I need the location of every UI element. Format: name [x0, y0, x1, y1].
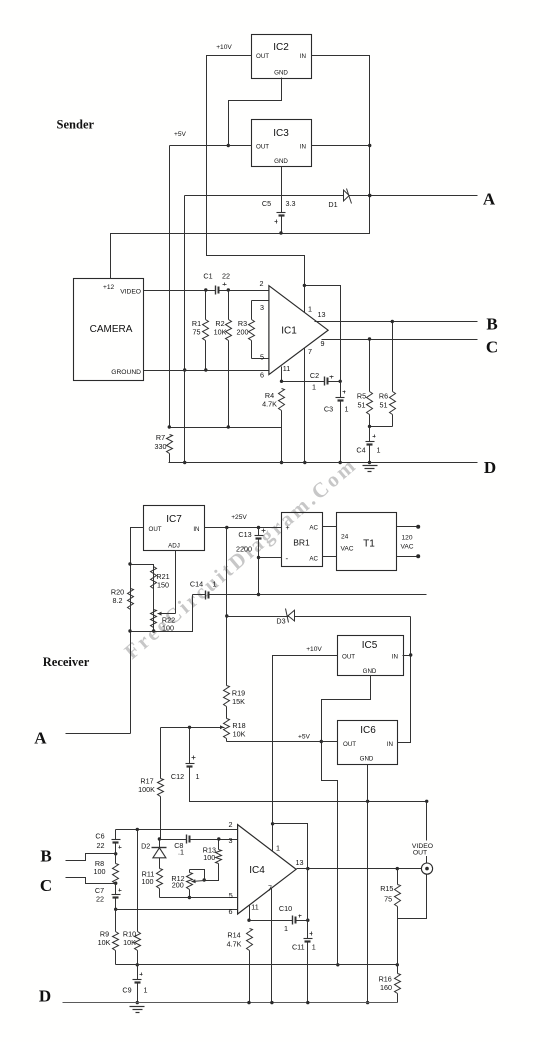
svg-text:IC7: IC7: [166, 514, 182, 525]
svg-text:AC: AC: [309, 556, 318, 563]
svg-text:C12: C12: [171, 772, 184, 781]
svg-text:C13: C13: [238, 530, 251, 539]
svg-text:D: D: [39, 987, 51, 1006]
svg-text:BR1: BR1: [293, 538, 310, 548]
svg-text:+25V: +25V: [231, 514, 247, 521]
svg-text:.1: .1: [178, 848, 184, 857]
svg-text:+10V: +10V: [306, 646, 322, 653]
svg-text:IN: IN: [193, 526, 199, 533]
svg-text:+10V: +10V: [216, 44, 232, 51]
svg-text:2200: 2200: [236, 545, 252, 554]
svg-text:1: 1: [308, 305, 312, 314]
svg-text:GND: GND: [363, 668, 377, 675]
svg-text:Sender: Sender: [57, 117, 95, 131]
svg-text:15K: 15K: [232, 697, 245, 706]
svg-text:R5: R5: [357, 392, 366, 401]
svg-text:D3: D3: [276, 617, 285, 626]
svg-text:IN: IN: [387, 741, 393, 748]
svg-text:+: +: [286, 525, 290, 532]
svg-text:C1: C1: [203, 272, 212, 281]
svg-text:OUT: OUT: [413, 850, 427, 857]
svg-text:D1: D1: [328, 200, 337, 209]
svg-text:OUT: OUT: [149, 526, 162, 533]
svg-text:7: 7: [308, 347, 312, 356]
svg-text:100: 100: [203, 853, 215, 862]
svg-text:2: 2: [260, 279, 264, 288]
svg-text:13: 13: [318, 310, 326, 319]
svg-text:100: 100: [142, 877, 154, 886]
svg-text:1: 1: [284, 924, 288, 933]
svg-text:D: D: [484, 458, 496, 477]
svg-text:13: 13: [296, 858, 304, 867]
svg-text:6: 6: [229, 907, 233, 916]
svg-text:1: 1: [377, 446, 381, 455]
svg-text:R6: R6: [379, 392, 388, 401]
svg-text:C4: C4: [356, 446, 365, 455]
svg-text:2: 2: [229, 820, 233, 829]
svg-text:51: 51: [380, 401, 388, 410]
svg-text:4.7K: 4.7K: [227, 940, 242, 949]
svg-text:IC3: IC3: [273, 128, 289, 139]
svg-text:OUT: OUT: [342, 654, 355, 661]
svg-text:75: 75: [384, 895, 392, 904]
svg-text:GND: GND: [360, 756, 374, 763]
svg-text:C3: C3: [324, 405, 333, 414]
svg-text:T1: T1: [363, 539, 375, 550]
svg-text:6: 6: [260, 371, 264, 380]
svg-text:IN: IN: [300, 144, 306, 151]
svg-text:3: 3: [260, 303, 264, 312]
svg-text:9: 9: [321, 339, 325, 348]
svg-text:C: C: [40, 876, 52, 895]
svg-text:11: 11: [283, 364, 290, 373]
svg-text:VIDEO: VIDEO: [120, 289, 141, 296]
svg-text:IC1: IC1: [281, 326, 297, 337]
svg-text:A: A: [483, 190, 496, 209]
svg-text:11: 11: [251, 903, 258, 912]
svg-text:OUT: OUT: [256, 144, 269, 151]
svg-text:C14: C14: [190, 580, 203, 589]
svg-text:3.3: 3.3: [286, 199, 296, 208]
svg-text:4.7K: 4.7K: [262, 400, 277, 409]
svg-text:VAC: VAC: [341, 546, 354, 553]
svg-text:24: 24: [341, 534, 349, 541]
svg-text:75: 75: [193, 328, 201, 337]
svg-text:7: 7: [268, 884, 272, 893]
svg-text:+12: +12: [103, 284, 115, 291]
svg-text:22: 22: [97, 841, 105, 850]
svg-text:OUT: OUT: [256, 53, 269, 60]
svg-text:IC2: IC2: [273, 42, 289, 53]
svg-text:Receiver: Receiver: [43, 655, 90, 669]
svg-text:IN: IN: [300, 53, 306, 60]
svg-text:C9: C9: [122, 986, 131, 995]
svg-text:GND: GND: [274, 70, 288, 77]
svg-text:VAC: VAC: [400, 544, 413, 551]
svg-text:C11: C11: [292, 943, 305, 952]
svg-text:10K: 10K: [233, 730, 246, 739]
svg-text:R15: R15: [380, 884, 393, 893]
svg-text:CAMERA: CAMERA: [90, 324, 133, 335]
svg-text:1: 1: [312, 943, 316, 952]
svg-text:1: 1: [144, 986, 148, 995]
svg-text:C5: C5: [262, 199, 271, 208]
svg-text:200: 200: [237, 328, 249, 337]
svg-text:1: 1: [213, 580, 217, 589]
svg-text:C10: C10: [279, 904, 292, 913]
svg-text:100K: 100K: [138, 785, 155, 794]
svg-text:R14: R14: [227, 931, 240, 940]
svg-text:C: C: [486, 338, 498, 357]
svg-text:160: 160: [380, 983, 392, 992]
svg-text:B: B: [486, 315, 497, 334]
svg-text:1: 1: [312, 383, 316, 392]
svg-text:IC5: IC5: [362, 640, 378, 651]
svg-text:1: 1: [196, 772, 200, 781]
svg-text:C2: C2: [310, 371, 319, 380]
svg-text:1: 1: [276, 844, 280, 853]
svg-text:150: 150: [157, 581, 169, 590]
svg-text:120: 120: [401, 535, 412, 542]
svg-text:GROUND: GROUND: [111, 369, 141, 376]
svg-text:8.2: 8.2: [113, 596, 123, 605]
svg-text:D2: D2: [141, 842, 150, 851]
svg-text:+5V: +5V: [174, 131, 187, 138]
svg-text:FreeCircuitDiagram.Com: FreeCircuitDiagram.Com: [120, 452, 362, 664]
svg-text:5: 5: [260, 353, 264, 362]
svg-text:ADJ: ADJ: [168, 543, 180, 550]
svg-text:22: 22: [222, 272, 230, 281]
svg-text:3: 3: [229, 836, 233, 845]
svg-text:5: 5: [229, 891, 233, 900]
svg-text:10K: 10K: [98, 938, 111, 947]
svg-text:OUT: OUT: [343, 741, 356, 748]
svg-text:IN: IN: [392, 654, 398, 661]
svg-text:-: -: [286, 554, 289, 563]
svg-text:1: 1: [345, 405, 349, 414]
svg-text:AC: AC: [309, 525, 318, 532]
svg-text:100: 100: [94, 867, 106, 876]
svg-text:10K: 10K: [214, 328, 227, 337]
svg-text:+5V: +5V: [298, 734, 311, 741]
svg-text:22: 22: [96, 895, 104, 904]
svg-text:B: B: [40, 847, 51, 866]
svg-text:IC6: IC6: [360, 725, 376, 736]
svg-text:R7: R7: [156, 433, 165, 442]
svg-text:C6: C6: [95, 832, 104, 841]
svg-text:10K: 10K: [123, 938, 136, 947]
svg-text:GND: GND: [274, 158, 288, 165]
svg-text:IC4: IC4: [249, 865, 265, 876]
svg-text:A: A: [34, 729, 47, 748]
svg-text:330: 330: [155, 442, 167, 451]
svg-text:51: 51: [358, 401, 366, 410]
svg-text:200: 200: [172, 881, 184, 890]
